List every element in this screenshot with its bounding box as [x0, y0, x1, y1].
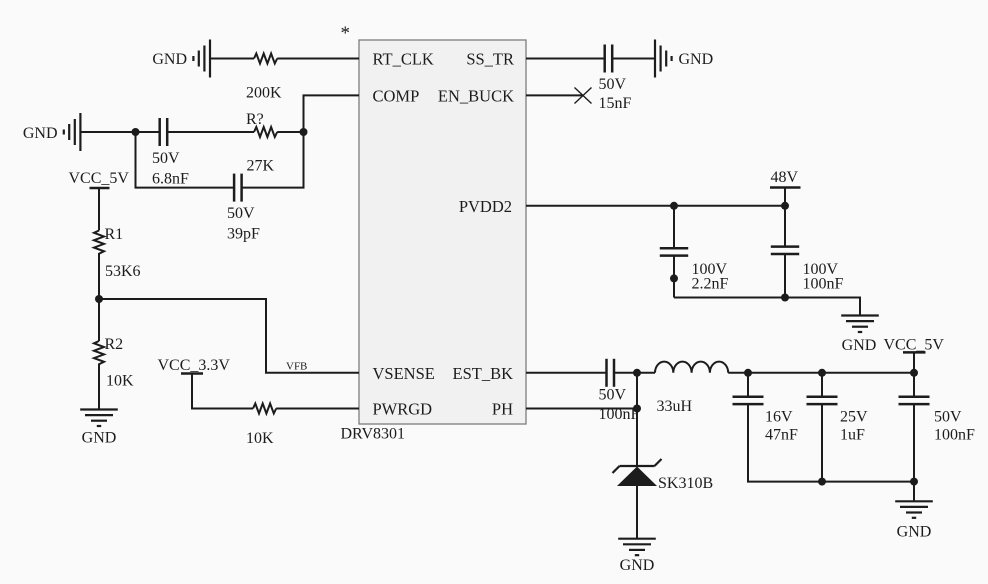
wire inductor to VCC_5V rail [728, 372, 914, 374]
resistor 10K (PWRGD) [253, 404, 276, 414]
wire VCC_3.3V to resistor 10K [192, 374, 253, 409]
svg-text:39pF: 39pF [227, 226, 260, 243]
wire capacitor 39pF to node B [242, 132, 304, 188]
wire capacitor 15nF to ground [612, 58, 655, 60]
ground (output rail) [895, 501, 933, 518]
svg-text:R1: R1 [105, 226, 124, 243]
svg-text:GND: GND [897, 524, 932, 541]
op-amp U1 DRV8301 body [359, 40, 526, 424]
capacitor C? 1uF [807, 397, 838, 404]
svg-text:6.8nF: 6.8nF [152, 170, 189, 187]
node H junction dot (47nF) [744, 369, 752, 377]
wire SS_TR pin to capacitor 15nF [526, 58, 605, 60]
wire PVDD2 pin to 48V rail [526, 205, 785, 207]
svg-text:50V: 50V [227, 205, 255, 222]
ground (below diode) [618, 539, 656, 556]
capacitor C? 15nF [605, 45, 613, 73]
svg-text:53K6: 53K6 [105, 263, 141, 280]
wire capacitor 100nF to bottom rail and ground [913, 404, 915, 501]
svg-text:PVDD2: PVDD2 [459, 197, 512, 216]
node M junction dot (bottom rail 100nF) [910, 478, 918, 486]
junction dot below capacitor 2.2nF [670, 274, 678, 282]
svg-text:R?: R? [246, 111, 264, 128]
svg-text:GND: GND [82, 430, 117, 447]
svg-text:2.2nF: 2.2nF [692, 276, 729, 293]
ground (SS_TR row, sideways) [655, 40, 672, 78]
capacitor C? 6.8nF [160, 118, 168, 146]
svg-text:50V: 50V [599, 76, 627, 93]
node I junction dot (1uF) [818, 369, 826, 377]
power VCC_5V (right) [903, 351, 926, 354]
ground (48V caps) [841, 316, 879, 333]
node K junction dot (PH) [633, 405, 641, 413]
svg-text:10K: 10K [106, 373, 134, 390]
resistor R1 [94, 231, 104, 256]
node C junction dot [95, 295, 103, 303]
capacitor C? 39pF [234, 174, 242, 202]
svg-text:1uF: 1uF [840, 426, 865, 443]
IC pin names [373, 50, 515, 419]
svg-text:50V: 50V [934, 408, 962, 425]
no-connect X on EN_BUCK [575, 88, 592, 104]
node J junction dot (100nF) [910, 369, 918, 377]
wire capacitor to resistor R? [167, 131, 254, 133]
svg-text:GND: GND [842, 337, 877, 354]
wire capacitor 47nF to bottom rail [748, 404, 914, 482]
wire node A down to lower branch [136, 132, 234, 188]
svg-text:COMP: COMP [373, 87, 420, 106]
svg-text:DRV8301: DRV8301 [341, 426, 406, 443]
power VCC_3.3V [181, 372, 203, 375]
svg-text:RT_CLK: RT_CLK [373, 50, 434, 69]
wire node G down to diode cathode [636, 373, 638, 466]
resistor R2 [94, 341, 104, 366]
svg-text:VSENSE: VSENSE [373, 364, 435, 383]
wire capacitor to node G [614, 372, 655, 374]
svg-text:50V: 50V [599, 387, 627, 404]
wire node J down to capacitor 100nF (5V) [913, 373, 915, 397]
svg-text:100nF: 100nF [934, 426, 975, 443]
wire node D down to capacitor 2.2nF [673, 206, 675, 248]
svg-text:*: * [341, 23, 351, 44]
svg-text:47nF: 47nF [765, 426, 798, 443]
svg-text:PH: PH [492, 400, 513, 419]
node G junction dot [633, 369, 641, 377]
wire capacitor 1uF to bottom rail [821, 404, 823, 482]
svg-text:EN_BUCK: EN_BUCK [438, 87, 514, 106]
wire node C to VSENSE pin (VFB net) [99, 299, 359, 373]
capacitor C? 2.2nF [660, 248, 688, 255]
svg-text:48V: 48V [771, 169, 799, 186]
resistor R? [254, 127, 277, 137]
svg-text:VCC_5V: VCC_5V [884, 337, 945, 354]
wire resistor R2 to ground [98, 366, 100, 410]
wire bottom rail to ground (48V caps) [674, 298, 860, 316]
svg-text:SS_TR: SS_TR [466, 50, 514, 69]
wire node E down to capacitor 100nF [784, 206, 786, 247]
wire PH pin to diode node [526, 408, 637, 410]
svg-text:200K: 200K [246, 85, 282, 102]
wire VCC_5V to resistor R1 [98, 188, 100, 231]
node A junction dot [132, 128, 140, 136]
svg-text:100nF: 100nF [599, 406, 640, 423]
wire resistor R1 to node C [98, 255, 100, 299]
wire 48V bar to rail [784, 188, 786, 206]
node F junction dot (bottom rail) [781, 294, 789, 302]
wire resistor 200K to RT_CLK pin [277, 58, 359, 60]
svg-text:27K: 27K [247, 158, 275, 175]
node D junction dot (PVDD2 rail left) [670, 202, 678, 210]
svg-text:100nF: 100nF [803, 276, 844, 293]
wire diode anode to ground [636, 486, 638, 539]
wire resistor 10K to PWRGD pin [276, 408, 359, 410]
svg-text:VFB: VFB [286, 361, 307, 373]
svg-text:GND: GND [620, 557, 655, 574]
diode D? SK310B (schottky) [613, 459, 662, 473]
svg-text:EST_BK: EST_BK [452, 364, 513, 383]
svg-text:SK310B: SK310B [658, 475, 713, 492]
wire node C to resistor R2 [98, 299, 100, 341]
power 48V [770, 186, 801, 189]
ground (RT_CLK row, sideways) [193, 40, 210, 78]
svg-text:GND: GND [679, 51, 714, 68]
svg-text:GND: GND [152, 51, 187, 68]
wire GND to node A [80, 131, 159, 133]
wire capacitor 2.2nF to bottom rail [673, 256, 675, 298]
node E junction dot (PVDD2 rail right) [781, 202, 789, 210]
svg-text:33uH: 33uH [657, 398, 693, 415]
svg-text:25V: 25V [840, 408, 868, 425]
svg-text:R2: R2 [105, 336, 124, 353]
capacitor C? 47nF [733, 397, 764, 404]
ground (COMP row, sideways) [64, 113, 81, 151]
svg-text:16V: 16V [765, 408, 793, 425]
svg-text:10K: 10K [246, 430, 274, 447]
node L junction dot (bottom rail 1uF) [818, 478, 826, 486]
wire resistor R? to node B [277, 131, 303, 133]
wire node H down to capacitor 47nF [747, 373, 749, 397]
wire EST_BK pin to capacitor 100nF (buck) [526, 372, 606, 374]
power VCC_5V (left) [90, 187, 110, 190]
svg-text:GND: GND [23, 125, 58, 142]
svg-text:PWRGD: PWRGD [373, 400, 433, 419]
node B junction dot [300, 128, 308, 136]
resistor 200K [254, 54, 277, 64]
inductor L? 33uH [655, 362, 728, 373]
capacitor C? 100nF (5V) [899, 397, 930, 404]
wire VCC_5V bar to rail [913, 352, 915, 372]
wire node I down to capacitor 1uF [821, 373, 823, 397]
svg-text:VCC_5V: VCC_5V [69, 170, 130, 187]
svg-text:50V: 50V [152, 150, 180, 167]
wire EN_BUCK pin (no connect) [526, 94, 583, 96]
wire GND to resistor 200K [210, 58, 254, 60]
ground (below R2) [80, 410, 118, 427]
svg-text:15nF: 15nF [599, 95, 632, 112]
wire capacitor 100nF to bottom rail [784, 254, 786, 298]
svg-text:VCC_3.3V: VCC_3.3V [158, 357, 231, 374]
capacitor C? 100nF (buck series) [607, 359, 615, 387]
capacitor C? 100nF (48V) [771, 247, 799, 254]
wire node B up to COMP pin [304, 95, 360, 132]
